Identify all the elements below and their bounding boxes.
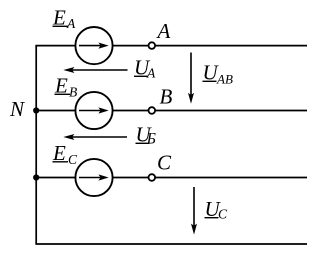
- source E_A internal arrow: [79, 43, 109, 49]
- arrow U_B (left-pointing): [63, 134, 127, 140]
- junction dot: node N at phase C tap: [33, 174, 39, 180]
- label U_C: [205, 197, 229, 222]
- source E_B (circle): [75, 92, 112, 129]
- terminal A (open circle): [149, 42, 156, 49]
- svg-text:AB: AB: [216, 72, 233, 87]
- svg-text:B: B: [160, 85, 173, 109]
- junction dot: node N at phase B tap: [33, 107, 39, 113]
- label U_AB: [203, 61, 233, 87]
- label E_B: [54, 74, 77, 100]
- source E_B internal arrow: [79, 107, 109, 113]
- svg-text:C: C: [157, 151, 172, 175]
- wire: phase B line: [36, 110, 307, 112]
- label E_A: [52, 6, 76, 32]
- source E_C internal arrow: [79, 174, 109, 180]
- label E_C: [52, 141, 78, 167]
- svg-text:B: B: [69, 85, 77, 100]
- label U_A: [134, 56, 156, 81]
- svg-text:A: A: [156, 19, 171, 43]
- wire: left neutral bus (vertical): [35, 46, 37, 244]
- arrow U_A (left-pointing): [63, 67, 127, 73]
- source E_C (circle): [75, 159, 112, 196]
- svg-text:Б: Б: [146, 131, 156, 148]
- svg-text:C: C: [218, 207, 228, 222]
- svg-text:A: A: [146, 66, 156, 81]
- svg-text:A: A: [66, 16, 76, 31]
- arrow U_C (downward, below C line): [191, 187, 197, 235]
- terminal B (open circle): [149, 107, 156, 114]
- svg-text:N: N: [9, 97, 25, 121]
- source E_A (circle): [75, 27, 112, 64]
- label U_B (Cyrillic subscript): [136, 123, 156, 148]
- arrow U_AB (downward, between A and B lines): [188, 53, 194, 104]
- terminal C (open circle): [149, 174, 156, 181]
- svg-text:C: C: [68, 152, 78, 167]
- wire: phase A line: [35, 45, 307, 47]
- wire: phase C line: [36, 177, 307, 179]
- wire: bottom neutral return: [35, 243, 307, 245]
